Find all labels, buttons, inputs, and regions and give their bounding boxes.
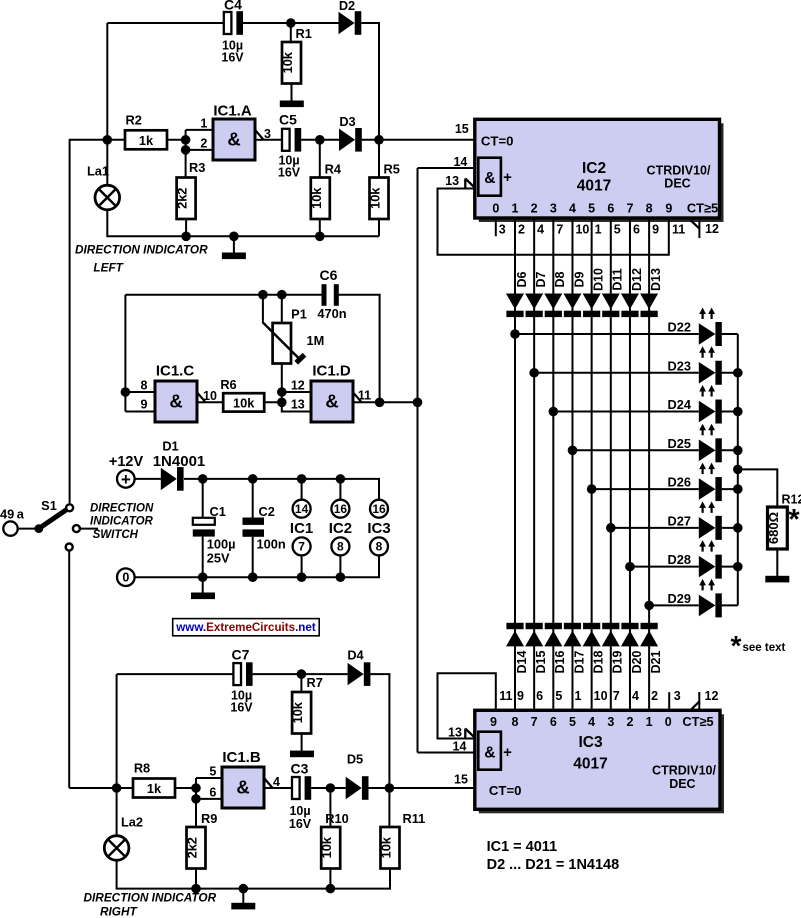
svg-text:R6: R6 [220,377,236,392]
wire C3 to R10 node [311,787,330,789]
svg-text:13: 13 [448,726,462,740]
wire D26 to bus [722,488,738,490]
wire La1 top stem [106,140,108,185]
svg-text:&: & [227,129,240,150]
wire column 7 from IC2 to IC3 [629,220,631,709]
diode D7 [525,271,548,317]
wire IC1 supply stem [301,479,303,500]
IC3 output number row [490,714,714,729]
svg-text:DEC: DEC [669,777,695,791]
resistor R6 [220,377,264,412]
capacitor C6 [317,267,346,321]
wire R3 bottom stem [185,219,187,236]
wire gate output to C3 [273,787,292,789]
svg-text:R4: R4 [325,162,342,177]
wire gate B input vertical [195,778,197,827]
svg-text:470n: 470n [317,306,346,321]
diode D19 [602,623,625,674]
svg-text:LEFT: LEFT [93,261,124,275]
wire switch bottom contact down [68,551,70,788]
svg-text:R1: R1 [296,26,312,41]
resistor R7 [290,675,323,734]
svg-text:D22: D22 [668,320,691,335]
svg-text:16V: 16V [278,166,301,180]
node tap D28 [625,562,699,572]
wire column 5 from IC2 to IC3 [591,220,593,709]
node R5 top [374,135,384,145]
label DIRECTION INDICATOR LEFT [75,243,208,275]
svg-text:D21: D21 [649,650,663,673]
wire R1 to ground [291,84,293,102]
node La2 top [112,783,122,793]
svg-text:3: 3 [499,222,506,236]
node C6 junction [375,398,385,408]
wire C2 bottom stem [252,537,254,577]
pin circle IC1 14 [293,500,311,518]
svg-text:DIRECTION: DIRECTION [90,503,154,515]
svg-text:2: 2 [626,715,633,729]
svg-text:D2: D2 [339,0,355,13]
op NAND gate IC1.D [311,363,353,423]
node R7 top [297,669,307,679]
svg-text:D9: D9 [572,271,586,287]
svg-text:2: 2 [518,222,525,236]
svg-text:4017: 4017 [573,756,607,773]
node IC1.A pin2 [181,145,191,155]
svg-text:9: 9 [665,202,672,216]
svg-text:16V: 16V [289,817,312,831]
svg-text:1: 1 [512,202,519,216]
node rail R3 [181,232,191,242]
wire D1 to C1 node [184,478,203,480]
pin circle IC2 8 [331,537,349,555]
svg-text:D5: D5 [347,752,363,767]
label DIRECTION INDICATOR SWITCH [90,503,154,542]
svg-text:2k2: 2k2 [175,188,190,209]
wire power rail C1-C2 [203,478,253,480]
svg-text:5: 5 [569,715,576,729]
wire C2 top stem [252,479,254,518]
svg-text:2: 2 [651,689,658,703]
wire R5 stem [378,140,380,178]
label pin 13 [291,398,305,412]
svg-text:3: 3 [550,202,557,216]
svg-text:13: 13 [445,174,459,188]
svg-text:R9: R9 [201,811,217,826]
node rail ground [229,232,239,242]
op-amp IC3 4017 body [475,710,724,813]
op NAND gate IC1.C [155,363,197,423]
svg-text:15: 15 [455,122,469,136]
svg-text:www.ExtremeCircuits.net: www.ExtremeCircuits.net [175,621,316,634]
svg-text:INDICATOR: INDICATOR [90,516,154,528]
svg-text:C5: C5 [279,112,297,128]
IC3 pin numbers above [499,689,680,703]
wire R12 to ground [776,549,778,576]
svg-text:9: 9 [141,398,148,412]
LED D22 [668,308,722,347]
wire R5 node to IC2 pin 15 [379,122,475,140]
wire R2 to gate input node [167,139,186,141]
svg-text:SWITCH: SWITCH [93,529,139,541]
node bus [733,484,743,494]
svg-text:2: 2 [531,202,538,216]
svg-text:6: 6 [633,222,640,236]
watermark box [173,619,320,636]
wire IC3 gnd corner [340,555,379,577]
diode D8 [544,271,567,317]
wire C5 to R4 node [301,139,320,141]
node IC1.B input [191,783,201,793]
diode D12 [621,268,644,317]
node rail R9 [191,884,201,894]
wire D25 to bus [722,449,738,451]
node tap D26 [587,484,699,494]
wire gate input vertical [185,130,187,178]
wire R7 to ground [301,734,303,752]
wire D5 to R11 node [369,787,390,789]
node tap D25 [568,446,699,456]
diode D13 [640,268,663,317]
diode D4 [347,648,370,686]
svg-text:680Ω: 680Ω [766,512,781,544]
svg-text:100n: 100n [257,537,286,552]
svg-text:D3: D3 [339,114,355,129]
node tap D22 [510,329,699,339]
lamp La1 [87,164,120,210]
wire D23 to bus [722,372,738,374]
svg-text:S1: S1 [41,498,57,513]
IC2 CT5 pin 12 stub [691,220,719,238]
pin circle IC3 16 [370,500,388,518]
wire R4 bottom stem [319,219,321,236]
node IC1.B pin 6 [191,794,201,804]
svg-text:5: 5 [614,222,621,236]
svg-text:D1: D1 [162,439,178,454]
svg-text:10k: 10k [233,395,255,410]
output wedge IC1.A pin 3 [254,127,271,141]
svg-text:3: 3 [607,715,614,729]
wire left rail to R8 [69,787,133,789]
wire 49a to switch pole [18,528,39,530]
wire IC3 pin 14 [418,739,475,753]
svg-text:C2: C2 [259,504,275,519]
wire D22 to bus [722,333,738,335]
svg-text:La2: La2 [121,815,143,830]
svg-text:4017: 4017 [577,178,611,195]
svg-text:5: 5 [209,765,216,779]
svg-text:D28: D28 [668,552,691,567]
svg-text:DEC: DEC [664,177,690,191]
note diode types [487,857,620,873]
wire R11 node to IC3 pin 15 [389,772,474,788]
label R8 [134,761,150,776]
svg-text:14: 14 [453,739,467,753]
wire rail R9 to ground node [196,888,243,890]
svg-text:6: 6 [607,202,614,216]
wire bus to R12 [738,469,778,507]
op NAND gate IC1.B [222,749,264,808]
svg-text:C4: C4 [224,0,242,13]
svg-text:9: 9 [490,715,497,729]
node C1 top [198,474,208,484]
wire IC3 out9 wrap to pin 13 [438,673,496,738]
svg-text:0: 0 [122,571,129,585]
svg-text:9: 9 [652,222,659,236]
svg-text:C1: C1 [210,504,226,519]
svg-text:1M: 1M [307,333,325,348]
svg-text:13: 13 [291,398,305,412]
node La1 top [103,135,113,145]
wire power rail C2-IC1 [253,478,302,480]
svg-text:12: 12 [705,689,719,703]
svg-text:16V: 16V [221,51,244,65]
node R10 top [326,783,336,793]
op NAND gate IC1.A [213,103,255,161]
wire column 3 from IC2 to IC3 [552,220,554,709]
svg-text:1: 1 [574,689,581,703]
wire R9 bottom stem [195,869,197,889]
wire column 2 from IC2 to IC3 [533,220,535,709]
wire C1 to bottom rail [202,537,204,578]
svg-text:3: 3 [674,689,681,703]
svg-text:7: 7 [298,540,305,554]
switch S1 [34,498,98,551]
wire D27 to bus [722,527,738,529]
wire bottom-left rail C7 line [116,674,118,788]
wire R7 node to D4 [301,673,347,675]
terminal 0 [117,568,135,586]
wire column 1 from IC2 to IC3 [514,220,516,709]
diode D10 [583,268,606,317]
svg-text:7: 7 [626,202,633,216]
wire rail to R5 bottom [320,235,379,237]
svg-text:0: 0 [665,715,672,729]
svg-text:10: 10 [575,222,589,236]
svg-text:10k: 10k [290,701,305,723]
wire gate D out to rail [362,401,418,403]
wire pin 12 [282,379,311,393]
svg-text:+: + [503,744,512,761]
wire La2 top stem [116,788,118,836]
wire top row to C4 [107,22,224,24]
svg-text:14: 14 [295,502,309,516]
IC2 output 0 stub pin 3 [495,220,497,237]
node rail ground bottom [239,884,249,894]
terminal 49a [0,507,25,536]
ground bottom section [231,903,255,910]
svg-text:10µ: 10µ [289,804,310,818]
svg-text:IC1.B: IC1.B [222,749,261,766]
svg-text:12: 12 [705,222,719,236]
wire switch top contact to left rail up [69,140,71,505]
svg-text:D26: D26 [668,475,691,490]
svg-text:D14: D14 [515,650,529,673]
wire ground stem top section [233,236,235,252]
svg-text:8: 8 [141,379,148,393]
wire pin 8 [125,379,155,393]
node P1 top [277,290,287,300]
svg-text:*: * [788,504,800,536]
diode D17 [563,623,586,674]
diode D14 [506,623,529,674]
wire R10 node to D5 [330,787,345,789]
wire left rail to R2 [69,139,125,141]
svg-text:+: + [503,169,512,186]
svg-text:10k: 10k [368,187,383,209]
wire gnd rail C1-C2 [203,576,253,578]
ground under R1 [280,101,304,108]
node P1 pin 12 [277,387,287,397]
svg-text:DIRECTION INDICATOR: DIRECTION INDICATOR [84,891,217,905]
wire bottom top row to C7 [117,673,234,675]
output wedge IC1.B pin 4 [263,775,280,789]
svg-text:IC1.C: IC1.C [156,363,195,380]
wire R4 stem [319,140,321,178]
svg-text:R2: R2 [126,113,142,128]
svg-text:D18: D18 [591,650,605,673]
diode D9 [563,271,586,317]
wire IC2 pin 14 [418,155,475,169]
svg-text:D17: D17 [572,650,586,673]
ground under R12 [765,576,789,583]
svg-text:1: 1 [200,117,207,131]
svg-text:6: 6 [209,786,216,800]
note IC1 type [487,839,558,855]
node rail R10 [326,884,336,894]
svg-text:11: 11 [672,222,685,236]
LED D24 [668,385,722,424]
svg-text:4: 4 [588,715,595,729]
svg-text:C6: C6 [320,267,338,283]
svg-text:D4: D4 [347,648,364,663]
svg-text:11: 11 [358,389,371,403]
svg-text:R7: R7 [307,675,323,690]
diode D6 [506,271,529,317]
svg-text:1k: 1k [139,133,154,148]
svg-text:4: 4 [632,689,639,703]
IC2 output number row [492,201,718,216]
svg-text:0: 0 [492,202,499,216]
LED D26 [668,463,722,502]
svg-text:4: 4 [273,775,280,789]
wire column 6 from IC2 to IC3 [610,220,612,709]
svg-text:11: 11 [499,689,512,703]
pin circle IC2 16 [331,500,349,518]
svg-text:9: 9 [517,689,524,703]
wire ground stem bottom section [242,889,244,903]
svg-text:16V: 16V [230,701,253,715]
svg-text:5: 5 [555,689,562,703]
wire pin 5 [196,765,222,779]
capacitor C7 [230,647,253,715]
diode D3 [339,114,362,152]
wire LED bus [737,334,739,605]
node IC2 supply [336,474,346,484]
wire IC2 supply stem [339,479,341,500]
svg-text:D2 ... D21 = 1N4148: D2 ... D21 = 1N4148 [487,857,620,873]
wire power rail IC1-IC2 [302,478,341,480]
wire +12V to D1 [135,478,161,480]
svg-text:D10: D10 [591,268,605,291]
wire La1 bottom to rail corner [107,210,186,237]
wire column 8 from IC2 to IC3 [648,220,650,709]
node R4 top [315,135,325,145]
svg-text:100µ: 100µ [207,537,236,552]
diode D18 [583,623,606,674]
svg-text:IC2: IC2 [582,160,606,177]
svg-text:+12V: +12V [109,454,144,470]
ground power section [191,593,215,600]
svg-text:7: 7 [556,222,563,236]
resistor R3 [175,160,206,219]
svg-text:R8: R8 [134,761,150,776]
svg-text:D29: D29 [668,591,691,606]
svg-text:8: 8 [512,715,519,729]
wire pin 6 [196,786,222,800]
svg-text:CT≥5: CT≥5 [682,714,713,729]
diode D15 [525,623,548,674]
wire D3 to R5 node [362,139,379,141]
wire D4 to right corner and down [370,674,389,788]
capacitor C5 [278,112,301,180]
wire clock rail [417,168,419,753]
svg-text:D20: D20 [630,650,644,673]
svg-text:R3: R3 [189,160,205,175]
svg-text:R10: R10 [325,811,348,826]
node C2 top [248,474,258,484]
svg-text:IC3: IC3 [367,520,390,537]
label IC2 [329,520,352,537]
svg-text:6: 6 [550,715,557,729]
svg-text:D25: D25 [668,436,691,451]
svg-text:IC1: IC1 [290,520,313,537]
svg-text:D15: D15 [534,650,548,673]
node bus [733,562,743,572]
svg-text:D8: D8 [553,271,567,287]
node P1 wiper [258,290,268,300]
input wedge IC3 pin 13 [465,729,475,739]
svg-text:4: 4 [569,202,576,216]
svg-text:R11: R11 [403,811,426,826]
svg-text:2: 2 [200,137,207,151]
IC3 CT5 pin 12 stub [690,689,718,710]
wire mid top rail [125,294,322,296]
resistor R4 [309,162,342,220]
wire IC2 out9 wrap to pin 13 [438,189,669,255]
wire R1 node to D2 [291,22,339,24]
wire top-left rail from C4 line down to La1 node [106,23,108,140]
svg-text:RIGHT: RIGHT [100,905,138,918]
wire R10 stem [329,788,331,827]
diode D20 [621,623,644,674]
pin circle IC3 8 [370,537,388,555]
svg-text:DIRECTION INDICATOR: DIRECTION INDICATOR [75,243,208,257]
svg-text:8: 8 [337,540,344,554]
svg-text:D13: D13 [649,268,663,291]
svg-text:1N4001: 1N4001 [153,453,206,470]
svg-text:7: 7 [613,689,620,703]
wire D24 to bus [722,411,738,413]
svg-text:C7: C7 [232,647,250,663]
wire C7 to R7 node [253,673,302,675]
resistor R9 [185,811,218,869]
ground under R7 [290,751,314,758]
svg-text:D7: D7 [534,271,548,287]
svg-text:8: 8 [646,202,653,216]
wire R1 stem top [290,23,292,42]
svg-text:&: & [484,745,495,762]
